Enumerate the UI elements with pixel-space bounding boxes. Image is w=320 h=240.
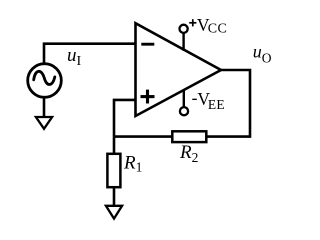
wire source top to inverting input [44,44,136,64]
ground (source) [36,117,52,129]
wire source bottom to ground [43,97,46,117]
resistor R1 [107,154,120,187]
op-amp minus sign (inverting input) [141,43,154,46]
-Vee supply stub and terminal [183,90,185,107]
output wire from op-amp to node and down [206,70,250,137]
op-amp U1 triangle [136,23,222,116]
wire node down to R1 [113,137,116,154]
ground (below R1) [106,206,122,219]
resistor R2 (feedback) [172,131,206,142]
+Vcc supply stub and terminal [182,33,184,51]
wire R1 to ground [113,187,116,206]
label +Vcc plus sign [189,19,196,26]
wire node up to non-inverting input [114,100,136,137]
voltage source u_I (sine source) [28,64,62,98]
wire R2 to input node [114,135,172,138]
op-amp plus sign (non-inverting input) [141,90,155,104]
